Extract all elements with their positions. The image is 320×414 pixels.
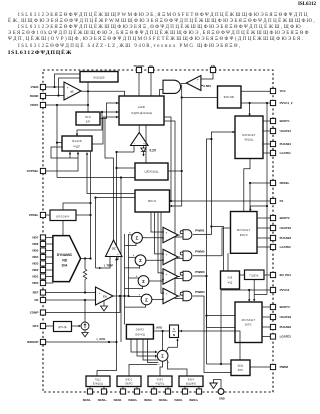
- pin UGATE1: [270, 128, 275, 133]
- svg-text:-: -: [142, 287, 143, 291]
- svg-text:+: +: [197, 78, 199, 82]
- pin VID1: [40, 274, 45, 279]
- wire REF line: [46, 292, 96, 294]
- svg-text:PWM4: PWM4: [280, 365, 289, 369]
- pin ISEN1+: [101, 389, 106, 394]
- wire gate to POR enable line: [170, 85, 182, 207]
- wire sense2 to ISEN2+: [136, 387, 138, 390]
- pin OFS: [40, 323, 45, 328]
- svg-text:ШЩФЮ: ШЩФЮ: [186, 382, 197, 386]
- svg-text:-: -: [166, 237, 167, 241]
- svg-text:+: +: [168, 361, 170, 364]
- svg-text:FS: FS: [280, 199, 284, 203]
- wire OVP lower-left input: [51, 147, 78, 158]
- svg-text:VCC: VCC: [280, 89, 287, 93]
- wire driver1 to LGATE1: [263, 152, 270, 154]
- svg-text:DRSEL: DRSEL: [280, 181, 290, 185]
- pin ISEN2+: [134, 389, 139, 394]
- offset box: [54, 322, 72, 332]
- svg-text:ФЮ2: ФЮ2: [126, 378, 133, 382]
- pin BOOT1: [270, 118, 275, 123]
- pin VID5: [40, 248, 45, 253]
- bus DAC to OVP comparator: [90, 152, 92, 259]
- wire fault logic to pwm bus: [164, 121, 175, 299]
- wire mode box up bus: [63, 203, 91, 210]
- svg-text:+: +: [158, 363, 160, 366]
- mosfet driver 2 box: [231, 212, 258, 254]
- wire clock bus to gate3: [175, 278, 183, 280]
- pin VID2: [40, 267, 45, 272]
- pin GND: [218, 389, 224, 395]
- pin VID0: [40, 280, 45, 285]
- wire channel detect to driver3: [253, 280, 255, 301]
- svg-text:ΘΦ3: ΘΦ3: [157, 378, 164, 382]
- wire RGND to UV box: [59, 78, 81, 96]
- wire sense4 riser: [168, 360, 188, 376]
- current source OFS: [81, 322, 89, 330]
- svg-text:ΨДП: ΨДП: [73, 144, 80, 148]
- wire comparator1 to gate: [178, 234, 180, 236]
- svg-text:I_AVG: I_AVG: [153, 326, 163, 330]
- wire sense3 to ISEN3+: [167, 387, 169, 390]
- wire mode box to DAC: [62, 221, 64, 236]
- wire bus to clock box a: [117, 167, 136, 169]
- pin PHASE3: [270, 324, 275, 329]
- wire x1 output to soft-start box: [81, 91, 125, 96]
- wire EA bus to sigma3: [129, 277, 140, 279]
- comparator OC overcurrent: [106, 240, 123, 257]
- pin DRSEL: [270, 180, 275, 185]
- pin SS: [148, 67, 153, 72]
- wire balance bus to sigma2: [125, 266, 140, 268]
- bus VDIFF sense vertical: [120, 178, 122, 343]
- wire driver3 to BOOT3: [262, 306, 270, 308]
- pin PVCC1_2: [270, 100, 275, 105]
- svg-text:VID: VID: [62, 258, 68, 262]
- wire VRSEL to mode box: [46, 214, 50, 216]
- svg-text:VID5: VID5: [32, 249, 39, 253]
- svg-text:ЦЁЖШЩ: ЦЁЖШЩ: [144, 170, 158, 174]
- mosfet driver 3 box: [235, 302, 262, 343]
- pin EN_PH4: [270, 272, 275, 277]
- wire clock box out: [168, 170, 182, 172]
- svg-text:Σ: Σ: [136, 236, 139, 241]
- svg-text:+: +: [139, 292, 141, 296]
- comparator PWM3: [163, 269, 178, 284]
- wire DRSEL riser: [249, 183, 251, 211]
- wire fault logic to oscillator: [164, 117, 171, 201]
- wire comparator to gate: [181, 83, 187, 85]
- svg-text:PHASE3: PHASE3: [280, 325, 292, 329]
- svg-text:EA: EA: [103, 294, 107, 298]
- comparator OVP 0.2V: [131, 133, 149, 146]
- summer sigma4: [141, 294, 152, 305]
- svg-text:ШЩ: ШЩ: [238, 363, 244, 367]
- op-amp EA error amplifier: [96, 287, 114, 305]
- svg-text:+: +: [117, 252, 119, 256]
- wire FS to sawtooth box: [170, 200, 271, 202]
- svg-text:ΨД: ΨД: [228, 280, 233, 284]
- wire VDIFF feedback: [46, 104, 88, 106]
- wire sense4 to ISEN4+: [198, 387, 200, 390]
- summer droop: [157, 350, 168, 361]
- svg-text:ПЦ1: ПЦ1: [95, 378, 101, 382]
- wire PWM3 to driver3: [193, 276, 235, 327]
- wire sawtooth to comparator1: [151, 212, 163, 232]
- pin ISEN1-: [87, 389, 92, 394]
- wire sense1 riser: [97, 342, 117, 376]
- wire 0.2V comp left input: [117, 146, 135, 153]
- wire OC output up: [105, 117, 114, 240]
- wire balance sense 3: [143, 339, 158, 360]
- soft-start and fault logic box: [119, 96, 164, 125]
- gate PWM1: [183, 230, 192, 240]
- wire balance to 1/N: [154, 330, 170, 332]
- wire PWM1 to driver1: [193, 132, 235, 235]
- wire POR branch: [182, 97, 218, 99]
- comparator EN 0.86V: [186, 76, 201, 91]
- comparator PWM4: [163, 288, 178, 303]
- pin EN: [210, 67, 215, 72]
- svg-text:+: +: [136, 274, 138, 278]
- svg-text:ФЮЭБ: ФЮЭБ: [224, 95, 235, 99]
- svg-text:-: -: [139, 266, 140, 270]
- wire VID6 to DAC: [46, 243, 54, 245]
- pin REF: [40, 290, 45, 295]
- svg-text:OC: OC: [112, 246, 116, 250]
- wire COMP to EA output: [46, 296, 120, 313]
- svg-text:RGND: RGND: [30, 94, 39, 98]
- svg-text:ISEN3+: ISEN3+: [159, 398, 168, 402]
- svg-text:+: +: [99, 291, 101, 295]
- channel 2 current sense box: [117, 376, 141, 387]
- svg-text:ФЮ: ФЮ: [238, 368, 244, 372]
- wire sawtooth to comparator2: [155, 212, 164, 254]
- wire EA bus to sigma4: [129, 296, 143, 298]
- wire UV box to OV box: [87, 83, 89, 113]
- wire comparator4 to gate: [178, 295, 180, 297]
- svg-text:ISEN1-: ISEN1-: [83, 398, 91, 402]
- svg-text:ФЮЭ: ФЮЭ: [240, 233, 248, 237]
- svg-text:MOSFET: MOSFET: [237, 228, 251, 232]
- wire sigma3 to comparator: [149, 280, 163, 282]
- svg-text:ISEN4+: ISEN4+: [189, 398, 198, 402]
- wire balance sense 1: [131, 339, 157, 352]
- wire PVCC to driver3b: [254, 293, 267, 295]
- svg-text:BOOT2: BOOT2: [280, 216, 290, 220]
- wire comparator3 to gate: [178, 276, 180, 278]
- wire droop input from I_AVG: [162, 331, 164, 351]
- svg-text:+: +: [143, 141, 145, 145]
- svg-text:+: +: [133, 253, 135, 257]
- phase select box: [221, 271, 240, 289]
- wire OVPSEL to OVP box: [46, 152, 78, 171]
- svg-text:VID3: VID3: [32, 262, 39, 266]
- bus EA to summers: [128, 234, 130, 296]
- pin ISEN3-: [151, 389, 156, 394]
- svg-text:VID4: VID4: [32, 255, 39, 259]
- wire driver1 to UGATE1: [263, 130, 270, 132]
- resistor internal REF: [84, 259, 86, 269]
- svg-text:ΞΘΦ: ΞΘΦ: [138, 105, 146, 109]
- pin PHASE1: [270, 141, 275, 146]
- label 0.86V: [201, 85, 203, 87]
- op-amp x1 differential amplifier: [64, 82, 81, 100]
- pin VID7: [40, 235, 45, 240]
- comparator PWM2: [163, 249, 178, 264]
- svg-text:FB: FB: [35, 298, 39, 302]
- wire sawtooth to comparator3: [158, 212, 163, 273]
- svg-text:-: -: [166, 259, 167, 263]
- wire sense1 to ISEN1-: [89, 387, 91, 390]
- wire PGOOD to soft-start box: [138, 73, 140, 96]
- svg-text:REF: REF: [33, 291, 39, 295]
- wire clock bus to gate4: [175, 298, 183, 300]
- svg-text:IDROOP: IDROOP: [27, 340, 38, 344]
- wire clock bus to gate1: [175, 236, 183, 238]
- svg-text:ЭБЯΞ: ЭБЯΞ: [125, 382, 133, 386]
- svg-text:MOSFET: MOSFET: [242, 318, 256, 322]
- svg-text:OFS: OFS: [32, 324, 38, 328]
- svg-text:0.2V: 0.2V: [150, 149, 157, 153]
- bus PVCC vertical: [266, 103, 268, 295]
- channel detect box: [245, 270, 265, 280]
- summer sigma3: [138, 276, 149, 287]
- svg-text:PWM2: PWM2: [195, 250, 205, 254]
- svg-text:BOOT3: BOOT3: [280, 305, 290, 309]
- wire clock bus to gate2: [175, 257, 183, 259]
- svg-text:ЖШЩ: ЖШЩ: [245, 138, 254, 142]
- wire into soft-start left 2: [102, 111, 119, 113]
- svg-text:Σ: Σ: [161, 354, 164, 359]
- pin BOOT3: [270, 304, 275, 309]
- wire PVCC to driver2: [250, 206, 267, 211]
- svg-text:-: -: [145, 305, 146, 309]
- pin VID4: [40, 254, 45, 259]
- wire current source to FB: [84, 300, 86, 322]
- wire OVP bottom to select bus: [69, 152, 71, 158]
- pin ISEN4+: [196, 389, 201, 394]
- wire OVP output to soft-start: [92, 117, 119, 144]
- svg-text:OVPSEL: OVPSEL: [27, 169, 39, 173]
- svg-text:EN: EN: [211, 64, 215, 68]
- svg-text:ЭБЯΞ: ЭБЯΞ: [136, 327, 145, 331]
- sawtooth generator box: [135, 190, 170, 212]
- pin UGATE3: [270, 314, 275, 319]
- wire I_TRIP: [96, 257, 111, 269]
- wire balance bus to sigma1: [125, 243, 137, 245]
- dashed chip boundary frame: [43, 70, 273, 392]
- svg-text:N: N: [173, 333, 175, 337]
- svg-text:ISEN1+: ISEN1+: [98, 398, 107, 402]
- pin FB: [40, 297, 45, 302]
- wire sense1 to ISEN1+: [103, 387, 105, 390]
- pin VID6: [40, 241, 45, 246]
- channel current balance box: [126, 325, 153, 340]
- wire balance sense 2: [137, 339, 157, 356]
- wire DAC output: [81, 258, 91, 260]
- svg-text:LGATE3: LGATE3: [280, 335, 292, 339]
- svg-text:UGATE3: UGATE3: [280, 315, 292, 319]
- wire PWM2 to driver2: [193, 228, 231, 256]
- svg-text:COMP: COMP: [30, 311, 39, 315]
- wire SS to soft-start box: [150, 73, 152, 96]
- pin VCC: [270, 88, 275, 93]
- wire VDIFF to OVP comparator: [56, 105, 58, 178]
- svg-text:БЯΞΘΦΨ: БЯΞΘΦΨ: [56, 214, 69, 218]
- pin RGND: [40, 93, 45, 98]
- wire FB line: [46, 299, 96, 301]
- wire balance bus to sigma4: [125, 305, 146, 307]
- svg-text:-: -: [67, 94, 68, 98]
- wire EA bus to sigma2: [129, 256, 137, 258]
- comparator PWM1: [163, 227, 178, 242]
- pin PHASE2: [270, 235, 275, 240]
- wire PWM4 gate to logic box: [193, 296, 231, 373]
- svg-text:MOSFET: MOSFET: [242, 133, 256, 137]
- wire VID5 to DAC: [46, 250, 54, 252]
- pin UGATE2: [270, 225, 275, 230]
- pin PVCC3: [270, 287, 275, 292]
- wire OV box to soft-start box: [100, 103, 119, 119]
- channel 4 current sense box: [179, 376, 203, 387]
- bus balance to summers: [124, 234, 126, 325]
- wire driver1 aux riser: [207, 139, 212, 364]
- pin BOOT2: [270, 215, 275, 220]
- undervoltage detection box: [80, 72, 118, 83]
- wire driver3 to LGATE3: [262, 336, 270, 338]
- pin COMP: [40, 310, 45, 315]
- wire VID0 to DAC: [46, 282, 54, 284]
- pin PGOOD: [136, 67, 141, 72]
- svg-text:BOOT1: BOOT1: [280, 119, 290, 123]
- svg-text:ISEN3-: ISEN3-: [144, 398, 152, 402]
- wire VID3 to DAC: [46, 263, 54, 265]
- wire driver2 bottom to phase box: [227, 253, 229, 271]
- svg-text:VID0: VID0: [32, 281, 39, 285]
- wire balance bus to sigma3: [125, 286, 143, 288]
- wire VID2 to DAC: [46, 269, 54, 271]
- wire sense4 to ISEN4-: [184, 387, 186, 390]
- pin ISEN2-: [120, 389, 125, 394]
- wire PVCC3 line: [221, 289, 270, 291]
- wire phase box to channel detect: [240, 274, 245, 276]
- svg-text:ПЦЁЖ: ПЦЁЖ: [250, 273, 259, 277]
- svg-text:LGATE1: LGATE1: [280, 151, 292, 155]
- gate PWM4: [183, 291, 192, 301]
- svg-text:0.86V: 0.86V: [203, 84, 211, 88]
- clock generator box: [135, 163, 168, 180]
- wire OFS pin to box: [46, 325, 54, 327]
- wire GND: [214, 380, 222, 389]
- wire gate to soft-start box: [160, 90, 163, 97]
- mode select box: [50, 210, 76, 221]
- svg-text:PHASE2: PHASE2: [280, 236, 292, 240]
- wire sigma4 to comparator: [152, 299, 163, 301]
- wire driver2 to BOOT2: [257, 217, 270, 219]
- svg-text:ΨДПЦЁЖШЩ: ΨДПЦЁЖШЩ: [131, 111, 152, 115]
- pin LGATE3: [270, 334, 275, 339]
- svg-text:Σ: Σ: [145, 297, 148, 302]
- pin ISEN4-: [182, 389, 187, 394]
- wire POR to PVCC1_2 pin: [241, 102, 270, 104]
- pin VID3: [40, 261, 45, 266]
- pin LGATE2: [270, 244, 275, 249]
- svg-text:VSEN: VSEN: [31, 85, 39, 89]
- wire 0.2V comp to soft-start box: [138, 125, 140, 133]
- wire PVCC to driver1: [249, 103, 251, 115]
- wire PWM3b to driver3: [207, 315, 235, 317]
- wire IDROOP line I_AVG: [46, 341, 117, 343]
- svg-text:VID2: VID2: [32, 268, 39, 272]
- bus I_AVG vertical: [116, 152, 118, 342]
- pin IDROOP: [40, 339, 45, 344]
- ovp comparator box: [62, 136, 92, 151]
- svg-text:-: -: [166, 278, 167, 282]
- svg-text:PGOOD: PGOOD: [134, 64, 145, 68]
- svg-text:ISEN4-: ISEN4-: [175, 398, 183, 402]
- svg-text:UGATE1: UGATE1: [280, 129, 292, 133]
- power-on reset box: [218, 86, 242, 108]
- svg-text:I_AVG: I_AVG: [96, 337, 106, 341]
- pin PWM4: [270, 364, 275, 369]
- wire OV logic to OVP box top: [77, 112, 102, 135]
- pwm4 logic box: [231, 360, 250, 376]
- svg-text:+: +: [129, 231, 131, 235]
- pin ISEN3+: [165, 389, 170, 394]
- gate PWM2: [183, 251, 192, 261]
- wire mode box right bus: [76, 214, 91, 216]
- svg-text:ΘΦΨД: ΘΦΨД: [135, 332, 145, 336]
- svg-text:-: -: [166, 298, 167, 302]
- wire POR to VCC pin: [241, 90, 270, 92]
- wire VSEN to x1 +: [46, 86, 64, 88]
- wire sense3 to ISEN3-: [153, 387, 155, 390]
- wire offset to current source: [72, 325, 81, 327]
- svg-text:-: -: [99, 299, 100, 303]
- wire pwm4 logic upper input: [207, 363, 231, 365]
- wire driver1 to driver2: [244, 159, 250, 211]
- svg-text:Σ: Σ: [139, 258, 142, 263]
- wire EA bus to sigma1: [129, 234, 133, 236]
- wire driver2 to PHASE2: [257, 237, 270, 239]
- svg-text:ЯΞΘΦ: ЯΞΘΦ: [72, 139, 82, 143]
- wire driver2 to LGATE2: [257, 246, 270, 248]
- svg-text:EN_PH4: EN_PH4: [280, 273, 292, 277]
- svg-text:ДПЦЁ: ДПЦЁ: [58, 325, 67, 329]
- wire VDIFF to clock box: [57, 177, 135, 179]
- wire comparator2 to gate: [178, 256, 180, 258]
- svg-text:БЯΞ: БЯΞ: [245, 323, 252, 327]
- wire driver3 to UGATE3: [262, 316, 270, 318]
- summer sigma2: [135, 255, 146, 266]
- svg-text:VRSEL: VRSEL: [29, 213, 39, 217]
- wire PVCC3 to driver3: [248, 290, 250, 301]
- ground below EA: [103, 301, 105, 306]
- svg-text:VID7: VID7: [32, 236, 39, 240]
- wire soft-start to clock box: [145, 125, 147, 163]
- svg-text:SS: SS: [149, 64, 153, 68]
- and gate enable: [163, 80, 181, 93]
- wire 1/N input line: [179, 331, 241, 360]
- pin FS: [270, 198, 275, 203]
- pin OVPSEL: [40, 168, 45, 173]
- wire VDIFF branch to OVP: [57, 142, 62, 144]
- wire sawtooth to comparator4: [161, 212, 163, 293]
- svg-text:VID6: VID6: [32, 242, 39, 246]
- svg-text:PVCC1_2: PVCC1_2: [280, 101, 293, 105]
- wire EA output: [113, 295, 129, 297]
